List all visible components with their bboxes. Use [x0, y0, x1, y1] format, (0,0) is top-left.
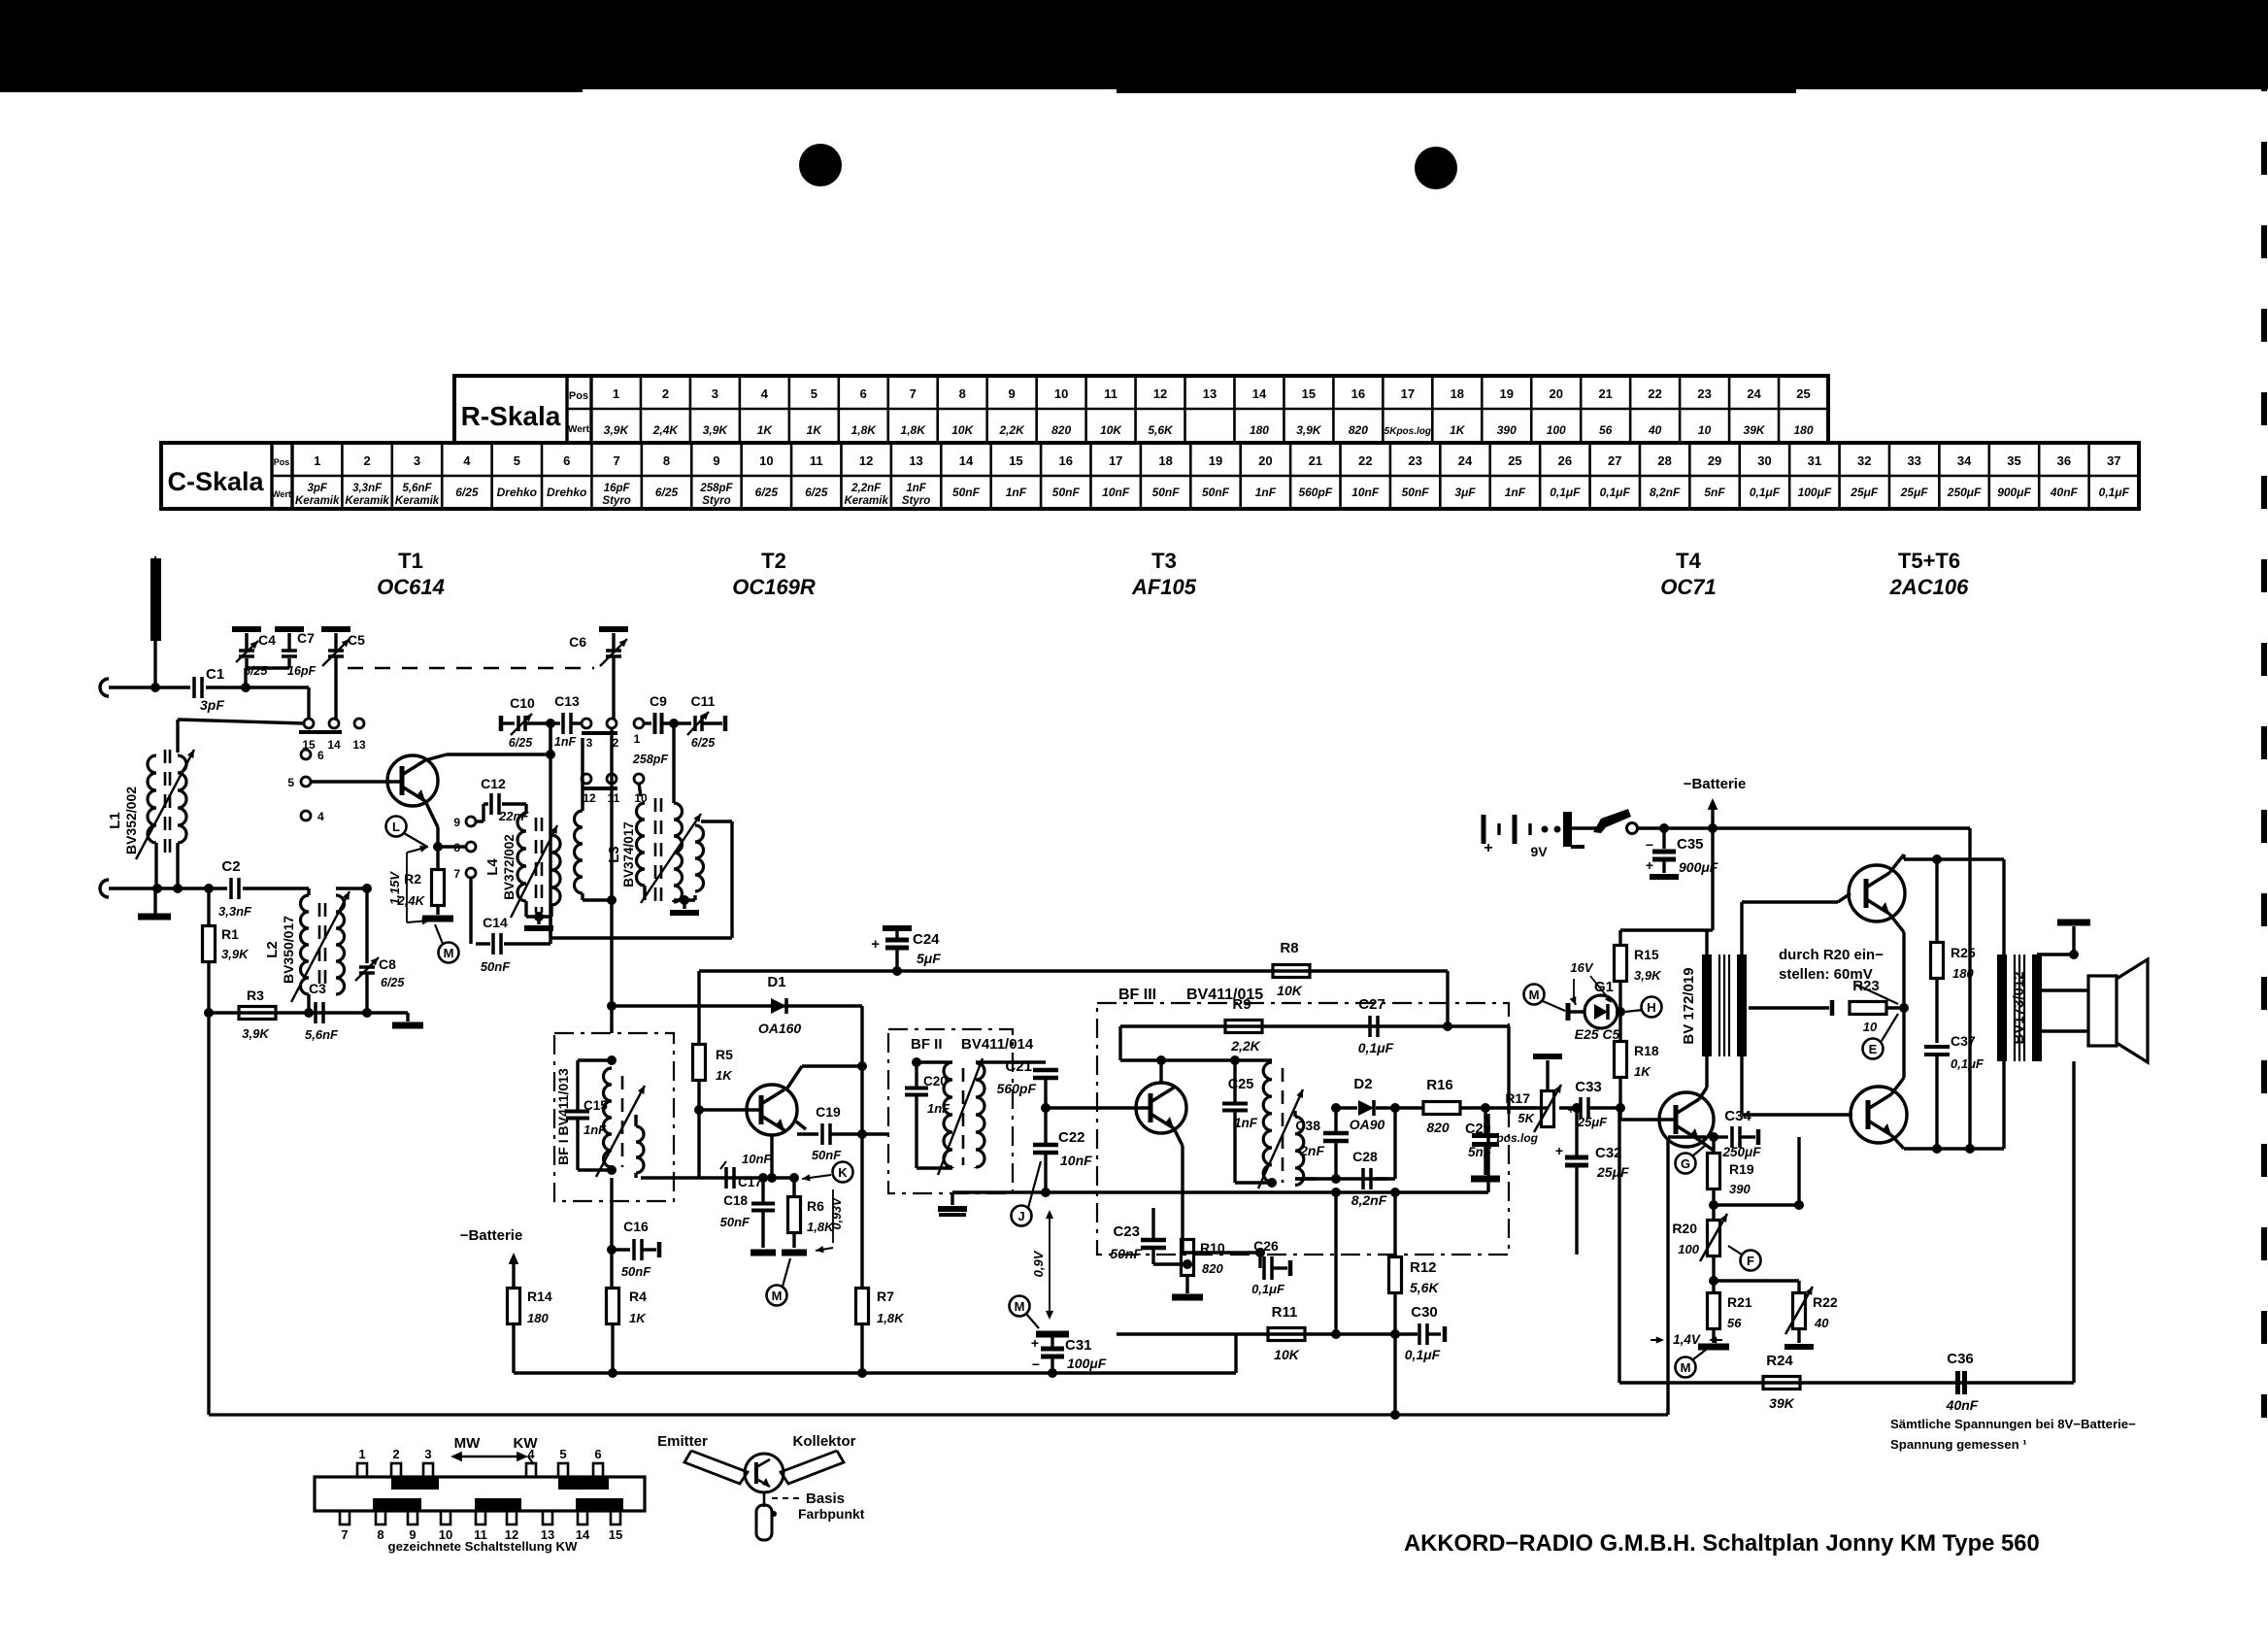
R23 center tap [1749, 1006, 1829, 1009]
svg-text:L1: L1 [107, 812, 123, 829]
svg-text:E: E [1869, 1042, 1878, 1056]
svg-text:C12: C12 [481, 776, 506, 791]
ground under R10 [1172, 1294, 1203, 1301]
svg-text:8,2nF: 8,2nF [1650, 486, 1681, 499]
svg-text:7: 7 [614, 453, 620, 468]
svg-text:AF105: AF105 [1131, 575, 1197, 599]
svg-text:3: 3 [414, 453, 420, 468]
svg-text:20: 20 [1549, 386, 1562, 401]
svg-text:5Kpos.log: 5Kpos.log [1384, 426, 1431, 437]
svg-text:11: 11 [810, 453, 823, 468]
svg-text:R1: R1 [221, 926, 239, 942]
svg-text:9: 9 [713, 453, 719, 468]
svg-text:18: 18 [1451, 386, 1464, 401]
ground rail lower left [514, 1371, 1236, 1374]
svg-text:8: 8 [959, 386, 966, 401]
svg-text:C22: C22 [1058, 1129, 1085, 1146]
svg-text:R14: R14 [527, 1289, 552, 1304]
svg-text:L4: L4 [484, 858, 501, 876]
wire to R15 [1620, 928, 1707, 931]
ground under R2 [422, 916, 453, 922]
ground under L4 [537, 917, 540, 924]
svg-text:10: 10 [1698, 423, 1712, 437]
node M near G1 [1524, 985, 1545, 1005]
svg-text:8: 8 [377, 1527, 384, 1542]
ground under BF II [951, 1193, 953, 1205]
svg-text:21: 21 [1598, 386, 1612, 401]
R-Skala table [454, 376, 1828, 443]
supply rail wire [699, 969, 1448, 972]
svg-text:100: 100 [1547, 423, 1566, 437]
wire C1 to node [206, 686, 309, 688]
svg-text:23: 23 [1408, 453, 1421, 468]
capacitor C15 [578, 1058, 612, 1061]
scan top black bar [0, 0, 2268, 89]
svg-text:30: 30 [1757, 453, 1771, 468]
svg-text:C30: C30 [1411, 1304, 1438, 1321]
svg-text:3pF: 3pF [200, 697, 224, 713]
node F [1741, 1251, 1761, 1271]
svg-text:50nF: 50nF [481, 959, 511, 974]
node E [1863, 1039, 1884, 1059]
resistor R25 [1935, 859, 1938, 943]
capacitor C16 [612, 1248, 630, 1251]
pinout V body [684, 1451, 748, 1484]
coil L2 with core [301, 895, 310, 994]
svg-text:BV374/017: BV374/017 [621, 821, 636, 887]
resistor R10 [1186, 1218, 1188, 1239]
coil L1 with core [148, 755, 156, 843]
secondary to C38 [1293, 1111, 1296, 1117]
svg-text:56: 56 [1727, 1316, 1742, 1330]
svg-text:0,1μF: 0,1μF [1951, 1056, 1984, 1071]
svg-text:5nF: 5nF [1468, 1145, 1492, 1159]
svg-text:C3: C3 [309, 981, 326, 996]
capacitor C24 [883, 925, 912, 931]
svg-text:E25 C5: E25 C5 [1575, 1026, 1620, 1042]
T3 emitter wire [1174, 1128, 1183, 1146]
ground under C8 [406, 1013, 409, 1021]
wire R19 row [1714, 1203, 1799, 1206]
svg-text:7: 7 [341, 1527, 348, 1542]
svg-text:3pF: 3pF [307, 483, 327, 494]
svg-text:AKKORD−RADIO G.M.B.H. Schal: AKKORD−RADIO G.M.B.H. Schaltplan Jonny K… [1404, 1530, 2040, 1557]
svg-text:1K: 1K [1634, 1064, 1651, 1079]
wire 1228 row [952, 1190, 1488, 1193]
svg-text:C6: C6 [569, 634, 586, 650]
svg-text:5: 5 [559, 1447, 566, 1461]
svg-text:R5: R5 [716, 1047, 733, 1062]
svg-text:C11: C11 [691, 693, 716, 709]
svg-text:R19: R19 [1729, 1161, 1754, 1177]
svg-text:6/25: 6/25 [805, 486, 828, 499]
svg-text:32: 32 [1857, 453, 1871, 468]
svg-text:50nF: 50nF [952, 486, 981, 499]
tuning gang dashed link [348, 667, 594, 669]
wire C38 top row to D2 [1336, 1106, 1357, 1109]
svg-text:OC71: OC71 [1660, 575, 1716, 599]
svg-text:0,1μF: 0,1μF [1358, 1040, 1394, 1055]
transistor T5 [1849, 865, 1905, 921]
svg-text:Keramik: Keramik [295, 495, 340, 507]
svg-text:10: 10 [759, 453, 773, 468]
svg-text:16pF: 16pF [287, 664, 317, 678]
MW KW arrow [456, 1456, 522, 1458]
svg-text:Basis: Basis [806, 1490, 845, 1507]
svg-text:2,2K: 2,2K [998, 423, 1025, 437]
resistor R1 [207, 888, 210, 926]
svg-text:OC169R: OC169R [732, 575, 816, 599]
svg-text:C29: C29 [1465, 1122, 1491, 1137]
svg-text:9: 9 [1009, 386, 1016, 401]
svg-text:−Batterie: −Batterie [1684, 776, 1747, 792]
svg-text:1K: 1K [807, 423, 823, 437]
resistor R23 [1850, 1002, 1886, 1015]
wave switch contacts 15 14 13 [307, 687, 310, 719]
R24 C36 rail [1618, 1108, 1620, 1383]
svg-text:50nF: 50nF [720, 1215, 750, 1229]
svg-text:H: H [1647, 1000, 1655, 1015]
punch hole right [1415, 147, 1457, 189]
variable resistor R22 [1793, 1293, 1806, 1329]
svg-text:10: 10 [1863, 1020, 1878, 1034]
pinout base lead [763, 1492, 766, 1507]
svg-text:6/25: 6/25 [655, 486, 679, 499]
ground under L3 [683, 900, 685, 909]
svg-text:C27: C27 [1358, 996, 1385, 1013]
output transformer BV173/012 [1997, 954, 2007, 1061]
ground above R17 [1546, 1060, 1549, 1091]
svg-text:37: 37 [2107, 453, 2120, 468]
svg-text:D1: D1 [767, 974, 785, 990]
svg-text:OA90: OA90 [1350, 1117, 1385, 1132]
battery 9V [1482, 815, 1486, 844]
coil L4 with core [517, 814, 526, 901]
svg-text:−Batterie: −Batterie [460, 1227, 523, 1244]
svg-text:gezeichnete Schaltstellung KW: gezeichnete Schaltstellung KW [388, 1539, 578, 1554]
svg-text:1nF: 1nF [1234, 1116, 1258, 1130]
svg-text:11: 11 [1104, 386, 1117, 401]
svg-text:C25: C25 [1228, 1077, 1254, 1092]
svg-text:BV411/014: BV411/014 [961, 1036, 1034, 1053]
svg-text:10nF: 10nF [1351, 486, 1380, 499]
svg-text:25: 25 [1508, 453, 1521, 468]
svg-text:12: 12 [1153, 386, 1167, 401]
svg-text:Pos: Pos [569, 390, 588, 402]
capacitor C22 [1044, 1108, 1047, 1143]
svg-text:1: 1 [613, 386, 619, 401]
wire battery down to transformer [1711, 828, 1714, 930]
T3 collector wire [1159, 1060, 1162, 1083]
svg-text:OC614: OC614 [377, 575, 445, 599]
svg-text:KW: KW [514, 1435, 539, 1452]
svg-text:L2: L2 [264, 941, 281, 958]
svg-text:14: 14 [959, 453, 974, 468]
svg-text:6/25: 6/25 [244, 664, 268, 678]
transformer secondary wires [1740, 902, 1743, 954]
voltage 0,9V arrow [1049, 1214, 1051, 1316]
svg-text:10K: 10K [951, 423, 974, 437]
capacitor C35 [1662, 828, 1665, 849]
contacts 12 11 10 [582, 774, 591, 784]
svg-text:1: 1 [634, 732, 641, 746]
svg-text:−: − [1032, 1356, 1040, 1372]
capacitor C25 [1233, 1060, 1236, 1102]
svg-text:C8: C8 [379, 956, 396, 972]
svg-text:durch R20 ein−: durch R20 ein− [1779, 947, 1884, 963]
svg-text:Emitter: Emitter [657, 1433, 708, 1450]
svg-text:6: 6 [563, 453, 570, 468]
svg-text:180: 180 [1250, 423, 1269, 437]
svg-text:40nF: 40nF [1946, 1397, 1979, 1413]
svg-text:R21: R21 [1727, 1294, 1752, 1310]
svg-text:34: 34 [1957, 453, 1972, 468]
svg-text:Keramik: Keramik [395, 495, 440, 507]
potentiometer R20 [1708, 1221, 1720, 1256]
svg-text:T2: T2 [761, 549, 786, 573]
node G [1676, 1154, 1696, 1174]
svg-text:C14: C14 [483, 915, 508, 930]
svg-text:C19: C19 [816, 1104, 841, 1120]
svg-text:2: 2 [662, 386, 669, 401]
svg-text:R18: R18 [1634, 1043, 1659, 1058]
svg-text:4: 4 [317, 810, 324, 823]
svg-text:C35: C35 [1677, 836, 1704, 853]
svg-text:Styro: Styro [602, 495, 630, 507]
pinout Basis label [772, 1497, 802, 1499]
svg-text:560pF: 560pF [1298, 486, 1332, 499]
resistor R16 [1395, 1106, 1424, 1109]
trimmer C8 [365, 888, 368, 963]
svg-text:10nF: 10nF [1060, 1153, 1092, 1168]
capacitor C17 [724, 1167, 728, 1189]
svg-text:0,1μF: 0,1μF [2099, 486, 2130, 499]
punch hole left [799, 144, 842, 186]
wire R8 right down [1446, 971, 1449, 1026]
capacitor C21 [976, 1060, 1046, 1063]
svg-text:100μF: 100μF [1798, 486, 1832, 499]
svg-text:5,6nF: 5,6nF [305, 1027, 339, 1042]
svg-text:40nF: 40nF [2050, 486, 2079, 499]
T4 emitter [1699, 1140, 1714, 1151]
svg-text:10K: 10K [1274, 1347, 1300, 1362]
svg-text:5,6K: 5,6K [1148, 423, 1174, 437]
svg-text:100μF: 100μF [1067, 1356, 1107, 1371]
capacitor C34 [1714, 1135, 1728, 1138]
C-Skala table [161, 443, 2139, 509]
svg-text:BF II: BF II [911, 1036, 943, 1053]
capacitor C27 [1368, 1016, 1372, 1037]
T5 base wire [1838, 893, 1851, 902]
variable capacitor C6 [606, 649, 621, 653]
svg-text:17: 17 [1401, 386, 1415, 401]
svg-text:1K: 1K [757, 423, 774, 437]
pinout Farbpunkt capsule [756, 1505, 772, 1540]
node H [1642, 997, 1662, 1018]
svg-text:12: 12 [859, 453, 873, 468]
svg-text:BV411/015: BV411/015 [1186, 987, 1263, 1003]
svg-text:6/25: 6/25 [509, 736, 533, 750]
wire C9 node down to L3 [672, 723, 675, 803]
capacitor C29 [1484, 1108, 1486, 1134]
svg-text:+: + [1646, 857, 1653, 873]
capacitor C31 [1051, 1331, 1053, 1338]
variable capacitor C5 [328, 649, 344, 653]
svg-text:R11: R11 [1272, 1304, 1298, 1321]
svg-text:50nF: 50nF [1052, 486, 1081, 499]
node M under R2 [439, 943, 459, 963]
wire input to C1 [109, 686, 190, 688]
svg-text:J: J [1017, 1209, 1024, 1223]
capacitor C13 [554, 721, 560, 724]
svg-text:26: 26 [1558, 453, 1572, 468]
svg-text:0,9V: 0,9V [1031, 1250, 1046, 1277]
svg-text:19: 19 [1500, 386, 1514, 401]
svg-text:1nF: 1nF [906, 483, 926, 494]
svg-text:3,9K: 3,9K [1296, 423, 1322, 437]
svg-text:3: 3 [712, 386, 718, 401]
svg-text:25: 25 [1796, 386, 1810, 401]
svg-text:C4: C4 [258, 632, 276, 648]
band switch diagram [315, 1477, 645, 1511]
svg-text:M: M [772, 1289, 783, 1303]
svg-text:900μF: 900μF [1997, 486, 2031, 499]
resistor R14 [508, 1289, 520, 1324]
svg-text:3,9K: 3,9K [1634, 968, 1662, 983]
svg-text:39K: 39K [1744, 423, 1766, 437]
ground above speaker [2037, 953, 2074, 955]
svg-text:2: 2 [363, 453, 370, 468]
svg-text:19: 19 [1209, 453, 1222, 468]
svg-text:R8: R8 [1280, 940, 1298, 956]
svg-text:C38: C38 [1295, 1118, 1320, 1133]
svg-text:560pF: 560pF [997, 1081, 1037, 1096]
svg-text:250μF: 250μF [1722, 1145, 1762, 1159]
T2 base wire [699, 1108, 761, 1111]
svg-text:L3: L3 [606, 846, 622, 863]
svg-text:9V: 9V [1530, 844, 1548, 859]
svg-text:BV350/017: BV350/017 [281, 916, 296, 984]
svg-text:0,1μF: 0,1μF [1600, 486, 1631, 499]
svg-text:T3: T3 [1151, 549, 1177, 573]
switch lever [1572, 826, 1599, 829]
diode G1 [1566, 1003, 1571, 1021]
svg-text:R24: R24 [1766, 1353, 1793, 1369]
R12 column [1393, 1192, 1396, 1256]
speaker [2037, 988, 2088, 991]
wire BF I to C16 R4 [610, 1178, 613, 1289]
wire C2 to L2 [243, 887, 309, 889]
capacitor C9 [653, 713, 657, 734]
svg-text:3,9K: 3,9K [703, 423, 729, 437]
svg-text:C10: C10 [510, 695, 535, 711]
svg-text:50nF: 50nF [1110, 1246, 1142, 1261]
svg-text:14: 14 [1252, 386, 1267, 401]
svg-text:F: F [1747, 1254, 1754, 1268]
switch bottom pins [340, 1511, 350, 1524]
svg-text:31: 31 [1808, 453, 1821, 468]
svg-text:C28: C28 [1352, 1149, 1378, 1164]
svg-text:Styro: Styro [702, 495, 730, 507]
svg-text:−: − [1646, 837, 1653, 853]
svg-text:M: M [1015, 1299, 1025, 1314]
svg-text:180: 180 [527, 1311, 549, 1325]
svg-text:1nF: 1nF [1006, 486, 1027, 499]
svg-text:50nF: 50nF [621, 1264, 651, 1279]
svg-text:100: 100 [1678, 1242, 1699, 1256]
svg-text:6: 6 [594, 1447, 601, 1461]
svg-text:Keramik: Keramik [345, 495, 389, 507]
capacitor C37 [1924, 1045, 1950, 1049]
resistor R8 [1273, 965, 1310, 978]
capacitor C18 [761, 1178, 764, 1203]
svg-text:R7: R7 [877, 1289, 894, 1304]
svg-text:M: M [1681, 1360, 1691, 1375]
input terminal upper [100, 679, 109, 696]
capacitor C33 [1554, 1107, 1575, 1109]
wire volume line [1508, 1108, 1510, 1114]
svg-text:Kollektor: Kollektor [792, 1433, 855, 1450]
capacitor C1 [192, 677, 196, 698]
svg-text:BV 172/019: BV 172/019 [1681, 967, 1697, 1044]
transistor T4 [1659, 1092, 1714, 1147]
svg-text:3,3nF: 3,3nF [218, 904, 252, 919]
svg-text:R-Skala: R-Skala [461, 401, 561, 431]
capacitor C14 [469, 877, 472, 944]
svg-text:BF III: BF III [1118, 987, 1156, 1003]
svg-text:3μF: 3μF [1454, 486, 1476, 499]
svg-text:56: 56 [1599, 423, 1613, 437]
wire D1 line [612, 1004, 862, 1007]
svg-text:C7: C7 [297, 630, 315, 646]
switch contact circle [1627, 823, 1638, 834]
T3 emitter joins [1153, 1217, 1183, 1219]
T4 collector [1699, 1088, 1707, 1099]
svg-text:C24: C24 [913, 931, 940, 948]
svg-text:29: 29 [1708, 453, 1721, 468]
svg-text:7: 7 [453, 867, 460, 881]
svg-text:5,6nF: 5,6nF [402, 483, 432, 494]
svg-text:11: 11 [608, 791, 620, 805]
svg-text:C36: C36 [1947, 1351, 1974, 1367]
svg-text:10K: 10K [1277, 983, 1303, 998]
T1 collector wire [425, 754, 447, 760]
wire bottom left row [209, 1011, 408, 1014]
coil L3 left winding [581, 738, 584, 811]
trimmer C7 [282, 649, 297, 653]
svg-text:15: 15 [1009, 453, 1022, 468]
svg-text:Spannung gemessen ¹: Spannung gemessen ¹ [1890, 1437, 2027, 1452]
svg-text:13: 13 [352, 738, 366, 752]
svg-text:33: 33 [1907, 453, 1920, 468]
capacitor C3 [314, 1002, 317, 1023]
wire R9 C27 row [1120, 1024, 1448, 1027]
svg-text:4: 4 [761, 386, 769, 401]
contacts 3 2 [582, 719, 591, 728]
resistor R5 [697, 971, 700, 1045]
svg-text:12: 12 [583, 791, 596, 805]
svg-text:M: M [444, 946, 454, 960]
svg-text:50nF: 50nF [812, 1148, 842, 1162]
svg-text:25μF: 25μF [1596, 1164, 1629, 1180]
svg-text:24: 24 [1747, 386, 1761, 401]
svg-text:2AC106: 2AC106 [1889, 575, 1969, 599]
svg-text:5K: 5K [1518, 1111, 1535, 1125]
svg-text:Wert: Wert [568, 424, 590, 435]
svg-text:R16: R16 [1426, 1077, 1453, 1093]
svg-text:2: 2 [613, 736, 619, 750]
svg-text:C16: C16 [623, 1219, 649, 1234]
